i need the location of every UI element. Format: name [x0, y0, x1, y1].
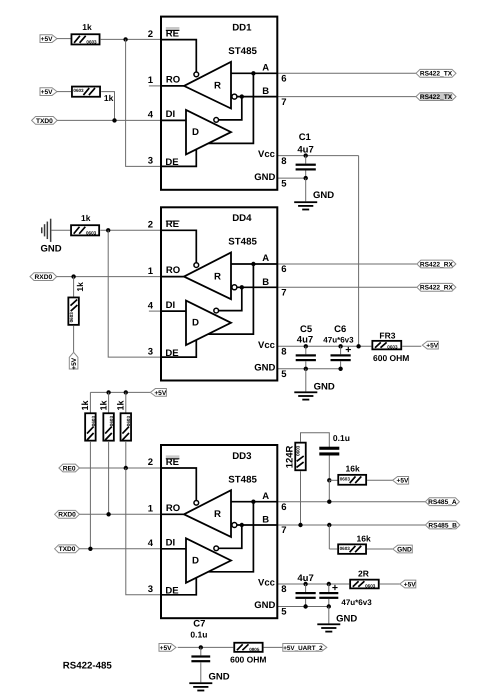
- net tag RS422_RX (B): [417, 283, 456, 291]
- junction driver-output/A (DD4): [251, 262, 255, 266]
- capacitor C5: [305, 346, 307, 354]
- internal wire DI pin to driver input (DD1): [162, 119, 186, 121]
- power flag +5V_UART_2: [283, 644, 327, 652]
- svg-text:GND: GND: [336, 614, 357, 625]
- wire DD4 pin 5 GND to C5/C6: [277, 368, 340, 370]
- junction driver-output/A (DD3): [251, 500, 255, 504]
- power flag +5V (to R at DD1 DI pullup): [40, 88, 57, 96]
- svg-text:GND: GND: [254, 172, 275, 183]
- resistor 16k 0603 (failsafe pulldown, mirrored): [338, 544, 366, 554]
- wire rail down to vertical resistor 3: [125, 392, 127, 412]
- wire DD4 pin 7 B to RS422_RX tag: [277, 286, 417, 288]
- svg-text:124R: 124R: [285, 445, 296, 468]
- junction GND/47u: [327, 604, 331, 608]
- wire DD3 pin 6 A to RS485_A tag: [277, 501, 425, 503]
- svg-text:C1: C1: [299, 132, 312, 143]
- svg-text:1: 1: [148, 75, 154, 86]
- svg-text:0603: 0603: [86, 39, 97, 44]
- op-amp-style IC DD4 (ST485 transceiver) outline: [161, 207, 277, 380]
- svg-text:GND: GND: [314, 381, 335, 392]
- internal wire driver output to A (DD1): [209, 73, 254, 143]
- svg-text:Vcc: Vcc: [258, 149, 275, 160]
- driver triangle D (DD1): [186, 110, 231, 154]
- wire B down to lower 16k: [328, 525, 330, 549]
- receiver inverting input bubble on B (DD1): [232, 94, 237, 99]
- svg-text:RE: RE: [166, 219, 179, 230]
- junction RE net: [123, 37, 127, 41]
- ground antenna symbol (DD4 RE/DE pulldown): [41, 227, 43, 233]
- resistor 124R 0603 vertical: [295, 443, 306, 471]
- net tag RXD0: [30, 273, 57, 281]
- internal wire A net (DD3): [231, 501, 277, 503]
- wire DD3 pin 5 GND to caps: [277, 606, 329, 608]
- net tag RS422_TX (A): [416, 69, 456, 77]
- junction GND/C6: [338, 367, 342, 371]
- net tag TXD0: [55, 545, 80, 553]
- svg-text:2R: 2R: [358, 569, 369, 579]
- svg-text:ST485: ST485: [228, 474, 257, 485]
- svg-text:+: +: [345, 344, 351, 356]
- wire junction to 16k resistor: [329, 479, 337, 481]
- receiver triangle R (DD3): [184, 490, 231, 537]
- ground symbol (DD3 decoupling): [317, 623, 340, 625]
- svg-text:B: B: [262, 515, 269, 526]
- wire RE0 to DD3 pin 2 RE: [79, 467, 161, 469]
- driver triangle D (DD3): [186, 538, 231, 583]
- capacitor 47u*6v3 (polarized): [328, 584, 330, 592]
- svg-text:D: D: [192, 318, 199, 329]
- svg-text:DI: DI: [166, 109, 176, 120]
- wire resistor to DD4 pin 2 RE: [100, 229, 161, 231]
- svg-text:8: 8: [281, 156, 286, 167]
- svg-text:RXD0: RXD0: [58, 512, 76, 519]
- receiver enable bubble (DD4): [194, 263, 199, 268]
- svg-text:2: 2: [148, 29, 153, 40]
- pin label RE with overline (DD1): [166, 27, 180, 30]
- wire RXD0 to DD3 pin 1 RO: [79, 513, 161, 515]
- svg-text:2: 2: [148, 457, 153, 468]
- svg-text:RS422_RX: RS422_RX: [420, 285, 454, 292]
- svg-text:0603: 0603: [365, 583, 376, 588]
- resistor 1k 0603 vertical (RXD0 pullup): [68, 297, 79, 324]
- svg-text:RE: RE: [166, 29, 179, 40]
- svg-text:+5V: +5V: [404, 581, 417, 588]
- capacitor C1: [305, 156, 307, 164]
- svg-text:+5V: +5V: [160, 645, 173, 652]
- wire 124R top to 0.1u cap top: [301, 433, 330, 447]
- internal wire RO pin to receiver output (DD1): [162, 85, 184, 87]
- internal wire A net (DD1): [231, 72, 277, 74]
- svg-text:5: 5: [281, 369, 287, 380]
- svg-text:1k: 1k: [80, 399, 90, 410]
- svg-text:+5V: +5V: [397, 478, 410, 485]
- svg-text:DD4: DD4: [232, 213, 252, 224]
- svg-text:GND: GND: [41, 243, 62, 254]
- junction Vcc/C6: [338, 344, 342, 348]
- net tag RS485_A: [425, 498, 459, 506]
- junction driver-output/A (DD1): [251, 71, 255, 75]
- wire resistor to DD1 pin 2: [101, 38, 161, 40]
- svg-text:16k: 16k: [357, 533, 371, 543]
- power flag +5V (vertical): [69, 352, 78, 369]
- wire to lower 16k resistor: [329, 548, 337, 550]
- svg-text:A: A: [262, 62, 269, 73]
- net tag RS422_TX (B, highlighted): [416, 93, 456, 101]
- wire bead to +5V_UART_2 tag: [264, 646, 283, 648]
- junction GND/C1: [304, 176, 308, 180]
- wire resistor 2 down to net: [108, 442, 110, 514]
- junction RXD0/pullup: [71, 274, 75, 278]
- svg-text:GND: GND: [209, 672, 230, 683]
- svg-text:1k: 1k: [104, 93, 114, 103]
- svg-text:+5V_UART_2: +5V_UART_2: [283, 645, 323, 652]
- resistor 1k 0603 (DD1 RE pullup): [71, 34, 99, 44]
- svg-text:16k: 16k: [346, 463, 360, 473]
- svg-text:DD3: DD3: [232, 451, 252, 462]
- svg-text:3: 3: [148, 346, 153, 357]
- junction Vcc/47u: [327, 582, 331, 586]
- wire resistor 3 down to net: [125, 442, 127, 468]
- junction Vcc/4u7: [303, 582, 307, 586]
- svg-text:6: 6: [281, 502, 286, 513]
- ferrite bead 600 OHM 0805: [234, 643, 262, 652]
- junction Vcc/C1: [304, 153, 308, 157]
- power flag +5V (2R): [400, 580, 416, 588]
- resistor 1k 0603 vertical (pullup 2): [103, 413, 114, 440]
- ground symbol (C7): [189, 682, 212, 684]
- internal wire DE pin to driver enable (DD3): [162, 578, 196, 595]
- receiver inverting input bubble on B (DD4): [232, 285, 237, 290]
- svg-text:RS422-485: RS422-485: [63, 661, 113, 672]
- svg-text:B: B: [262, 277, 269, 288]
- svg-text:7: 7: [281, 288, 286, 299]
- junction +5V/C7: [199, 645, 203, 649]
- svg-text:4: 4: [148, 538, 154, 549]
- svg-text:6: 6: [281, 264, 286, 275]
- svg-text:RO: RO: [166, 503, 180, 514]
- svg-text:8: 8: [281, 584, 286, 595]
- wire RXD0 to DD4 pin 1 RO: [57, 276, 161, 278]
- wire C5 to ground: [305, 369, 307, 392]
- svg-text:1k: 1k: [75, 282, 85, 292]
- svg-text:RS485_A: RS485_A: [428, 499, 457, 506]
- junction Vcc/C5: [304, 344, 308, 348]
- wire resistor 1 down to net: [89, 442, 91, 549]
- wire resistor down to TXD0 net: [101, 92, 114, 121]
- power flag +5V (to R at DD1 pin 2): [40, 35, 57, 43]
- svg-text:3: 3: [148, 156, 153, 167]
- wire 2R to +5V flag: [380, 583, 400, 585]
- svg-text:0603: 0603: [296, 445, 301, 456]
- power flag +5V (16k): [393, 476, 409, 484]
- resistor 1k 0603 vertical (pullup 3): [121, 413, 132, 440]
- internal wire RE pin to receiver enable bubble (DD3): [162, 468, 196, 500]
- svg-text:0603: 0603: [86, 230, 97, 235]
- svg-text:8: 8: [281, 347, 286, 358]
- wire C1 to ground: [305, 178, 307, 201]
- net tag RS422_RX (A): [417, 260, 456, 268]
- svg-text:R: R: [214, 81, 221, 92]
- wire DD1 pin 5 GND to C1: [277, 177, 305, 179]
- internal wire B to driver inverting output (DD1): [219, 97, 242, 120]
- svg-text:2: 2: [148, 220, 153, 231]
- internal wire RE pin to receiver enable bubble (DD4): [162, 230, 196, 262]
- op-amp-style IC DD3 (ST485 transceiver) outline: [161, 445, 277, 618]
- wire +5V to 600 OHM bead: [178, 646, 234, 648]
- svg-text:GND: GND: [254, 600, 275, 611]
- wire +5V to resistor: [57, 91, 71, 93]
- internal wire B net (DD1): [237, 96, 277, 98]
- svg-text:RS422_TX: RS422_TX: [420, 94, 453, 101]
- capacitor 4u7: [305, 584, 307, 592]
- svg-text:GND: GND: [313, 190, 334, 201]
- svg-text:0.1u: 0.1u: [190, 630, 207, 640]
- internal wire RO pin to receiver output (DD3): [162, 513, 184, 515]
- junction TXD0/pullup: [112, 118, 116, 122]
- svg-text:0603: 0603: [73, 88, 84, 93]
- net tag GND: [393, 545, 413, 553]
- internal wire DE pin to driver enable (DD4): [162, 340, 196, 357]
- svg-text:0603: 0603: [109, 416, 114, 427]
- svg-text:0603: 0603: [340, 546, 351, 551]
- net tag RS485_B: [425, 521, 460, 529]
- wire DD1 pin 7 B to RS422_TX tag: [277, 96, 416, 98]
- svg-text:0603: 0603: [91, 416, 96, 427]
- wire 0.1u down to 16k junction: [328, 456, 330, 481]
- wire ground to resistor: [51, 229, 70, 231]
- svg-text:1k: 1k: [116, 399, 126, 410]
- resistor 1k 0603 vertical (pullup 1): [85, 413, 96, 440]
- svg-text:0.1u: 0.1u: [333, 433, 350, 443]
- junction RXD0/pullup: [106, 512, 110, 516]
- svg-text:+5V: +5V: [41, 89, 54, 96]
- junction Vcc/+5V riser: [356, 344, 360, 348]
- svg-text:ST485: ST485: [228, 46, 257, 57]
- svg-text:1: 1: [148, 504, 154, 515]
- wire DD1 pin 8 Vcc to C1 and +5V net: [277, 155, 358, 157]
- svg-text:TXD0: TXD0: [36, 118, 53, 125]
- junction rail/R2: [106, 390, 110, 394]
- svg-text:RO: RO: [166, 75, 180, 86]
- svg-text:TXD0: TXD0: [59, 546, 76, 553]
- svg-text:R: R: [214, 509, 221, 520]
- svg-text:RXD0: RXD0: [35, 274, 53, 281]
- svg-text:4u7: 4u7: [297, 335, 313, 346]
- svg-text:Vcc: Vcc: [258, 340, 275, 351]
- svg-text:7: 7: [281, 97, 286, 108]
- internal wire RE pin to receiver enable bubble (DD1): [162, 40, 196, 72]
- stub DD4 pin 4 DI (n.c.): [149, 310, 161, 312]
- net tag TXD0: [32, 117, 58, 125]
- svg-text:3: 3: [148, 584, 153, 595]
- internal wire driver output to A (DD4): [209, 264, 254, 334]
- pin label RE with overline (DD3): [166, 455, 180, 458]
- svg-text:RE: RE: [166, 457, 179, 468]
- internal wire B net (DD3): [237, 524, 277, 526]
- wire C7 to ground: [200, 663, 202, 682]
- receiver inverting input bubble on B (DD3): [232, 523, 237, 528]
- wire DD3 pin 8 Vcc to caps and 2R: [277, 583, 349, 585]
- svg-text:+5V: +5V: [426, 342, 439, 349]
- pin label RE with overline (DD4): [166, 220, 180, 222]
- driver triangle D (DD4): [186, 301, 231, 346]
- svg-text:B: B: [262, 86, 269, 97]
- junction B/16k pulldown: [327, 523, 331, 527]
- svg-text:R: R: [214, 271, 221, 282]
- junction 0.1u/16k: [327, 478, 331, 482]
- svg-text:1k: 1k: [82, 22, 92, 32]
- wire 47u to ground: [328, 607, 330, 624]
- wire RE junction down to DD1 pin 3 DE: [126, 39, 161, 166]
- capacitor C7: [200, 647, 202, 655]
- svg-text:5: 5: [281, 607, 287, 618]
- svg-text:600 OHM: 600 OHM: [373, 353, 409, 363]
- junction B net (DD4): [240, 285, 244, 289]
- svg-text:4: 4: [148, 110, 154, 121]
- svg-text:4: 4: [148, 300, 154, 311]
- wire +5V(Vcc) net down to FR3 row: [358, 156, 360, 347]
- wire resistor to +5V flag: [73, 326, 75, 353]
- internal wire RO pin to receiver output (DD4): [162, 276, 184, 278]
- svg-text:RS422_TX: RS422_TX: [420, 71, 453, 78]
- svg-text:RE0: RE0: [63, 465, 76, 472]
- junction TXD0/pullup: [88, 547, 92, 551]
- svg-text:1k: 1k: [98, 399, 108, 410]
- svg-text:Vcc: Vcc: [258, 578, 275, 589]
- wire +5V to resistor 1k: [57, 38, 71, 40]
- svg-text:GND: GND: [397, 546, 412, 553]
- svg-text:D: D: [192, 127, 199, 138]
- capacitor C6 (polarized): [340, 346, 342, 354]
- svg-text:RS422_RX: RS422_RX: [420, 261, 454, 268]
- junction GND/4u7: [303, 604, 307, 608]
- resistor 2R 0603: [350, 580, 379, 589]
- wire 16k to +5V flag: [367, 479, 393, 481]
- internal wire driver output to A (DD3): [209, 502, 254, 572]
- ferrite bead FR3 0603: [372, 341, 401, 350]
- internal wire DE pin to driver enable (DD1): [162, 149, 196, 166]
- power flag +5V (pullup rail): [150, 389, 166, 397]
- svg-text:0603: 0603: [340, 476, 351, 481]
- wire RXD0 down to vertical resistor: [73, 277, 75, 297]
- svg-text:DD1: DD1: [232, 23, 252, 34]
- resistor 1k 0603 (DD4 RE pulldown): [71, 225, 99, 235]
- svg-text:GND: GND: [254, 363, 275, 374]
- svg-text:A: A: [262, 491, 269, 502]
- internal wire B to driver inverting output (DD4): [219, 287, 242, 310]
- internal wire B to driver inverting output (DD3): [219, 525, 242, 548]
- driver inverting output bubble (DD3): [214, 546, 219, 551]
- receiver enable bubble (DD3): [194, 500, 199, 505]
- internal wire DI pin to driver input (DD4): [162, 310, 186, 312]
- svg-text:7: 7: [281, 525, 286, 536]
- junction RE0/pullup: [124, 466, 128, 470]
- wire 16k to GND tag: [367, 548, 393, 550]
- junction B net (DD1): [240, 94, 244, 98]
- wire DD3 pin 7 B to RS485_B tag: [277, 524, 425, 526]
- svg-text:RO: RO: [166, 265, 180, 276]
- ground symbol (DD4 decoupling): [294, 391, 317, 393]
- svg-text:0603: 0603: [126, 416, 131, 427]
- junction 124R/B: [298, 523, 302, 527]
- junction RE net (DD4): [106, 228, 110, 232]
- wire TXD0 to DD3 pin 4 DI: [79, 548, 161, 550]
- junction A/termination: [327, 500, 331, 504]
- wire DD1 pin 6 A to RS422_TX tag: [277, 72, 416, 74]
- receiver enable bubble (DD1): [194, 72, 199, 77]
- op-amp-style IC DD1 (ST485 transceiver) outline: [161, 17, 277, 190]
- wire RE0 junction down to DD3 pin 3 DE: [126, 468, 161, 595]
- stub DD1 pin 1 RO (n.c.): [149, 85, 161, 87]
- svg-text:+5V: +5V: [154, 390, 167, 397]
- power flag +5V (FR3): [422, 341, 438, 349]
- wire FR3 to +5V flag: [402, 345, 421, 347]
- svg-text:0805: 0805: [249, 647, 260, 652]
- junction GND/C5: [304, 367, 308, 371]
- driver inverting output bubble (DD4): [214, 308, 219, 313]
- svg-text:D: D: [192, 555, 199, 566]
- resistor 1k 0603 (DD1 DI pullup, mirrored): [72, 87, 100, 97]
- svg-text:A: A: [262, 253, 269, 264]
- internal wire DI pin to driver input (DD3): [162, 548, 186, 550]
- receiver triangle R (DD4): [184, 253, 231, 300]
- svg-text:5: 5: [281, 178, 287, 189]
- svg-text:600 OHM: 600 OHM: [230, 655, 266, 665]
- capacitor 0.1u plates: [319, 447, 339, 450]
- receiver triangle R (DD1): [184, 62, 231, 109]
- svg-text:0603: 0603: [69, 312, 74, 323]
- wire DD4 pin 6 A to RS422_RX tag: [277, 263, 417, 265]
- +5V rail wire for pullup resistors: [90, 391, 150, 393]
- svg-text:+5V: +5V: [71, 357, 78, 370]
- svg-text:1: 1: [148, 266, 154, 277]
- resistor 16k 0603 (failsafe pullup, mirrored): [338, 475, 366, 485]
- svg-text:1k: 1k: [81, 213, 91, 223]
- svg-text:+5V: +5V: [41, 36, 54, 43]
- net tag RE0: [59, 464, 80, 472]
- svg-text:ST485: ST485: [228, 237, 257, 248]
- wire rail down to vertical resistor 1: [89, 392, 91, 412]
- svg-text:RS485_B: RS485_B: [428, 522, 457, 529]
- svg-text:DI: DI: [166, 300, 176, 311]
- driver inverting output bubble (DD1): [214, 118, 219, 123]
- svg-text:FR3: FR3: [379, 330, 395, 340]
- wire TXD0 to DD1 pin 4 DI: [57, 119, 161, 121]
- power flag +5V (filter input): [159, 644, 176, 652]
- wire DD4 pin 8 Vcc to C5/C6/FR3: [277, 345, 371, 347]
- svg-text:C7: C7: [193, 619, 205, 630]
- junction B net (DD3): [240, 523, 244, 527]
- svg-text:C5: C5: [300, 324, 313, 335]
- ground symbol (DD1 decoupling): [294, 201, 317, 203]
- net tag RXD0: [55, 510, 80, 518]
- svg-text:C6: C6: [334, 324, 346, 335]
- svg-text:DI: DI: [166, 538, 176, 549]
- wire 16k junction down to A line: [328, 480, 330, 501]
- wire RE junction down to DD4 pin 3 DE: [108, 230, 161, 357]
- internal wire B net (DD4): [237, 286, 277, 288]
- internal wire A net (DD4): [231, 263, 277, 265]
- svg-text:0603: 0603: [387, 344, 398, 349]
- wire rail down to vertical resistor 2: [108, 392, 110, 412]
- svg-text:47u*6v3: 47u*6v3: [341, 598, 372, 607]
- svg-text:6: 6: [281, 74, 286, 85]
- wire 124R down to B line: [300, 471, 302, 525]
- junction rail/R3: [124, 390, 128, 394]
